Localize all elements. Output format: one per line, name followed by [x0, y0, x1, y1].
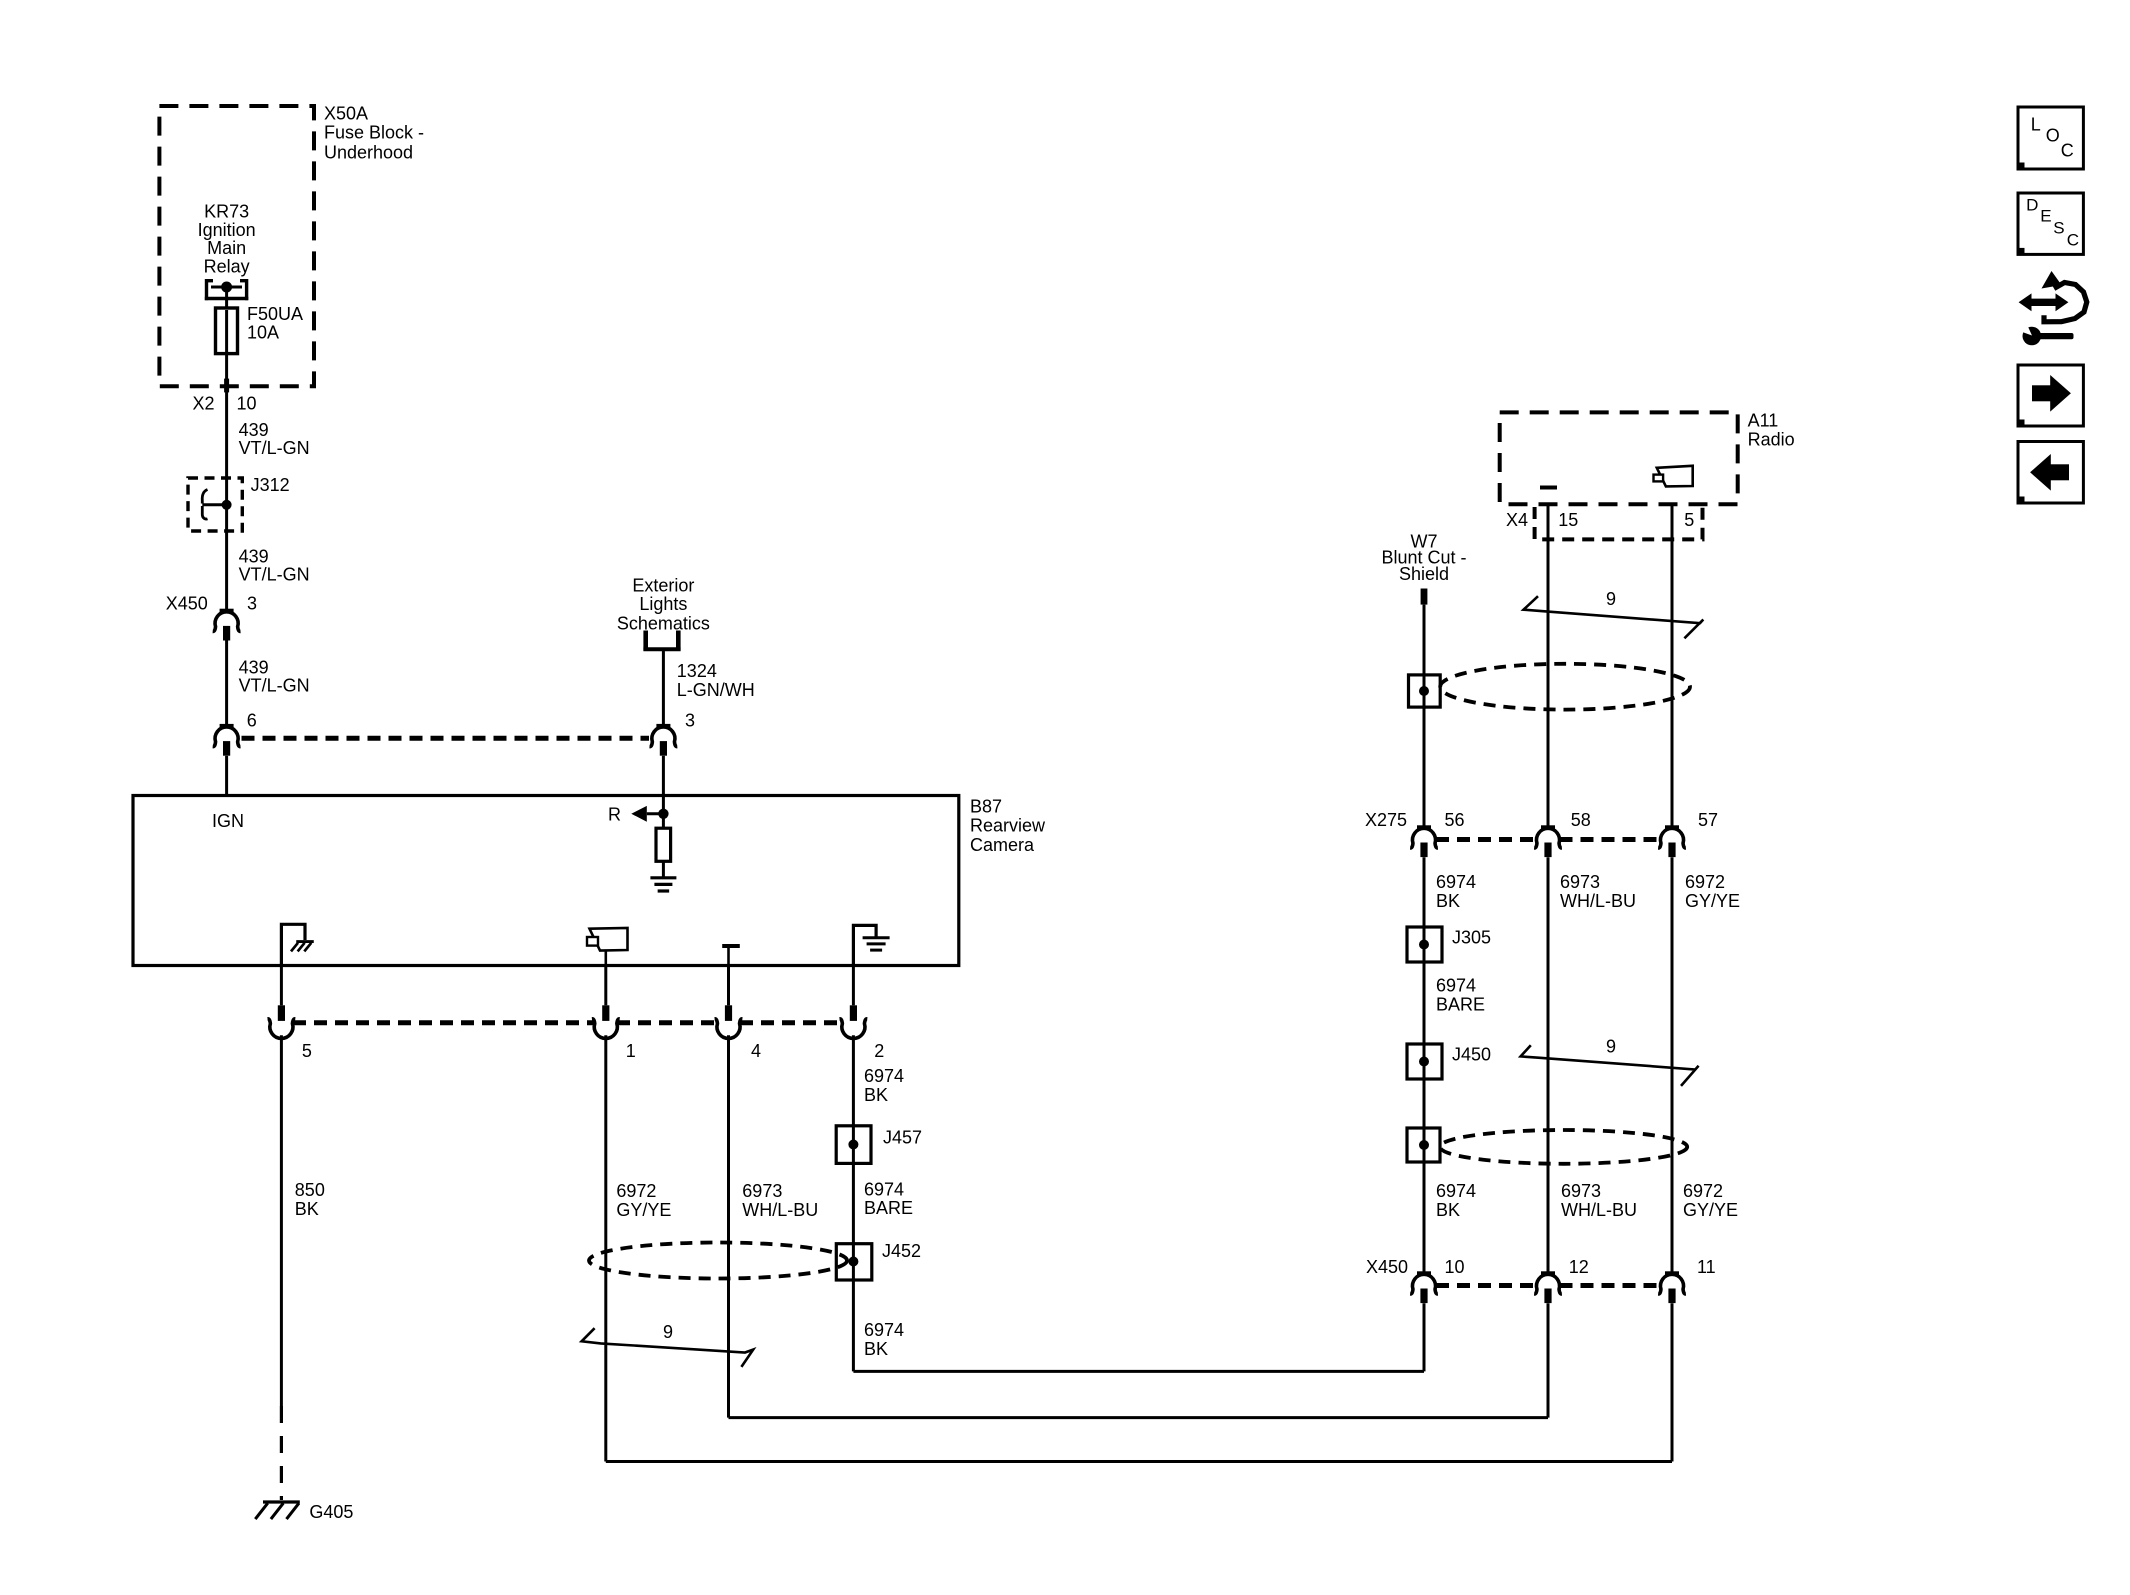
- svg-text:2: 2: [874, 1041, 884, 1061]
- svg-text:C: C: [2061, 140, 2074, 160]
- svg-text:GY/YE: GY/YE: [616, 1200, 671, 1220]
- svg-text:VT/L-GN: VT/L-GN: [239, 564, 310, 584]
- svg-text:BK: BK: [295, 1199, 319, 1219]
- svg-text:Shield: Shield: [1399, 564, 1449, 584]
- svg-text:6974: 6974: [864, 1320, 904, 1340]
- svg-text:5: 5: [1684, 510, 1694, 530]
- svg-text:L: L: [2031, 115, 2041, 135]
- svg-text:BK: BK: [864, 1085, 888, 1105]
- svg-text:6973: 6973: [1561, 1181, 1601, 1201]
- svg-text:KR73: KR73: [204, 202, 249, 222]
- svg-text:Underhood: Underhood: [324, 143, 413, 163]
- svg-text:WH/L-BU: WH/L-BU: [742, 1200, 818, 1220]
- svg-text:X4: X4: [1506, 510, 1528, 530]
- svg-text:F50UA: F50UA: [247, 304, 303, 324]
- svg-text:Relay: Relay: [204, 256, 250, 276]
- svg-text:Ignition: Ignition: [198, 220, 256, 240]
- svg-text:3: 3: [247, 593, 257, 613]
- svg-text:6: 6: [247, 711, 257, 731]
- svg-text:BK: BK: [1436, 1200, 1460, 1220]
- svg-text:GY/YE: GY/YE: [1683, 1200, 1738, 1220]
- svg-text:Lights: Lights: [639, 594, 687, 614]
- svg-text:X450: X450: [1366, 1257, 1408, 1277]
- svg-text:S: S: [2053, 218, 2064, 237]
- svg-text:10: 10: [237, 394, 257, 414]
- svg-text:O: O: [2046, 125, 2060, 145]
- svg-text:439: 439: [239, 546, 269, 566]
- svg-text:GY/YE: GY/YE: [1685, 891, 1740, 911]
- svg-text:J305: J305: [1452, 928, 1491, 948]
- svg-text:56: 56: [1445, 810, 1465, 830]
- svg-text:5: 5: [302, 1041, 312, 1061]
- svg-text:J457: J457: [883, 1128, 922, 1148]
- svg-text:D: D: [2026, 196, 2038, 215]
- svg-text:G405: G405: [309, 1502, 353, 1522]
- svg-text:VT/L-GN: VT/L-GN: [239, 438, 310, 458]
- svg-text:J452: J452: [882, 1241, 921, 1261]
- svg-text:Schematics: Schematics: [617, 613, 710, 633]
- svg-text:9: 9: [1606, 589, 1616, 609]
- svg-text:57: 57: [1698, 810, 1718, 830]
- svg-text:WH/L-BU: WH/L-BU: [1560, 891, 1636, 911]
- svg-text:1: 1: [626, 1041, 636, 1061]
- svg-text:R: R: [608, 805, 621, 825]
- svg-text:BK: BK: [1436, 891, 1460, 911]
- svg-text:Main: Main: [207, 238, 246, 258]
- svg-text:Radio: Radio: [1748, 430, 1795, 450]
- svg-text:X275: X275: [1365, 810, 1407, 830]
- svg-text:850: 850: [295, 1180, 325, 1200]
- svg-text:X450: X450: [166, 593, 208, 613]
- svg-text:6974: 6974: [864, 1179, 904, 1199]
- svg-text:Camera: Camera: [970, 835, 1035, 855]
- svg-text:A11: A11: [1748, 411, 1779, 431]
- svg-text:11: 11: [1697, 1257, 1716, 1277]
- svg-text:10: 10: [1445, 1257, 1465, 1277]
- svg-text:BARE: BARE: [1436, 995, 1485, 1015]
- svg-text:6973: 6973: [1560, 872, 1600, 892]
- svg-text:439: 439: [239, 420, 269, 440]
- svg-text:BK: BK: [864, 1339, 888, 1359]
- svg-text:1324: 1324: [677, 661, 717, 681]
- svg-text:6973: 6973: [742, 1181, 782, 1201]
- svg-text:Rearview: Rearview: [970, 816, 1046, 836]
- svg-text:4: 4: [751, 1041, 761, 1061]
- svg-text:Fuse Block -: Fuse Block -: [324, 123, 424, 143]
- svg-text:J450: J450: [1452, 1044, 1491, 1064]
- svg-text:439: 439: [239, 658, 269, 678]
- svg-text:58: 58: [1571, 810, 1591, 830]
- svg-text:6974: 6974: [1436, 1181, 1476, 1201]
- svg-text:VT/L-GN: VT/L-GN: [239, 676, 310, 696]
- svg-text:9: 9: [663, 1322, 673, 1342]
- svg-text:3: 3: [685, 711, 695, 731]
- svg-text:BARE: BARE: [864, 1198, 913, 1218]
- svg-text:X2: X2: [192, 394, 214, 414]
- svg-text:WH/L-BU: WH/L-BU: [1561, 1200, 1637, 1220]
- svg-text:L-GN/WH: L-GN/WH: [677, 680, 755, 700]
- svg-text:6974: 6974: [1436, 872, 1476, 892]
- svg-text:6972: 6972: [1683, 1181, 1723, 1201]
- svg-text:9: 9: [1606, 1036, 1616, 1056]
- svg-text:6972: 6972: [616, 1181, 656, 1201]
- svg-text:6974: 6974: [1436, 976, 1476, 996]
- svg-text:X50A: X50A: [324, 104, 368, 124]
- svg-text:C: C: [2067, 230, 2079, 249]
- svg-text:6972: 6972: [1685, 872, 1725, 892]
- svg-text:10A: 10A: [247, 322, 279, 342]
- svg-text:12: 12: [1569, 1257, 1589, 1277]
- svg-text:B87: B87: [970, 796, 1002, 816]
- svg-text:IGN: IGN: [212, 811, 244, 831]
- svg-text:6974: 6974: [864, 1066, 904, 1086]
- svg-text:15: 15: [1558, 510, 1578, 530]
- svg-text:J312: J312: [251, 475, 290, 495]
- svg-text:Exterior: Exterior: [632, 576, 694, 596]
- svg-text:E: E: [2040, 206, 2051, 225]
